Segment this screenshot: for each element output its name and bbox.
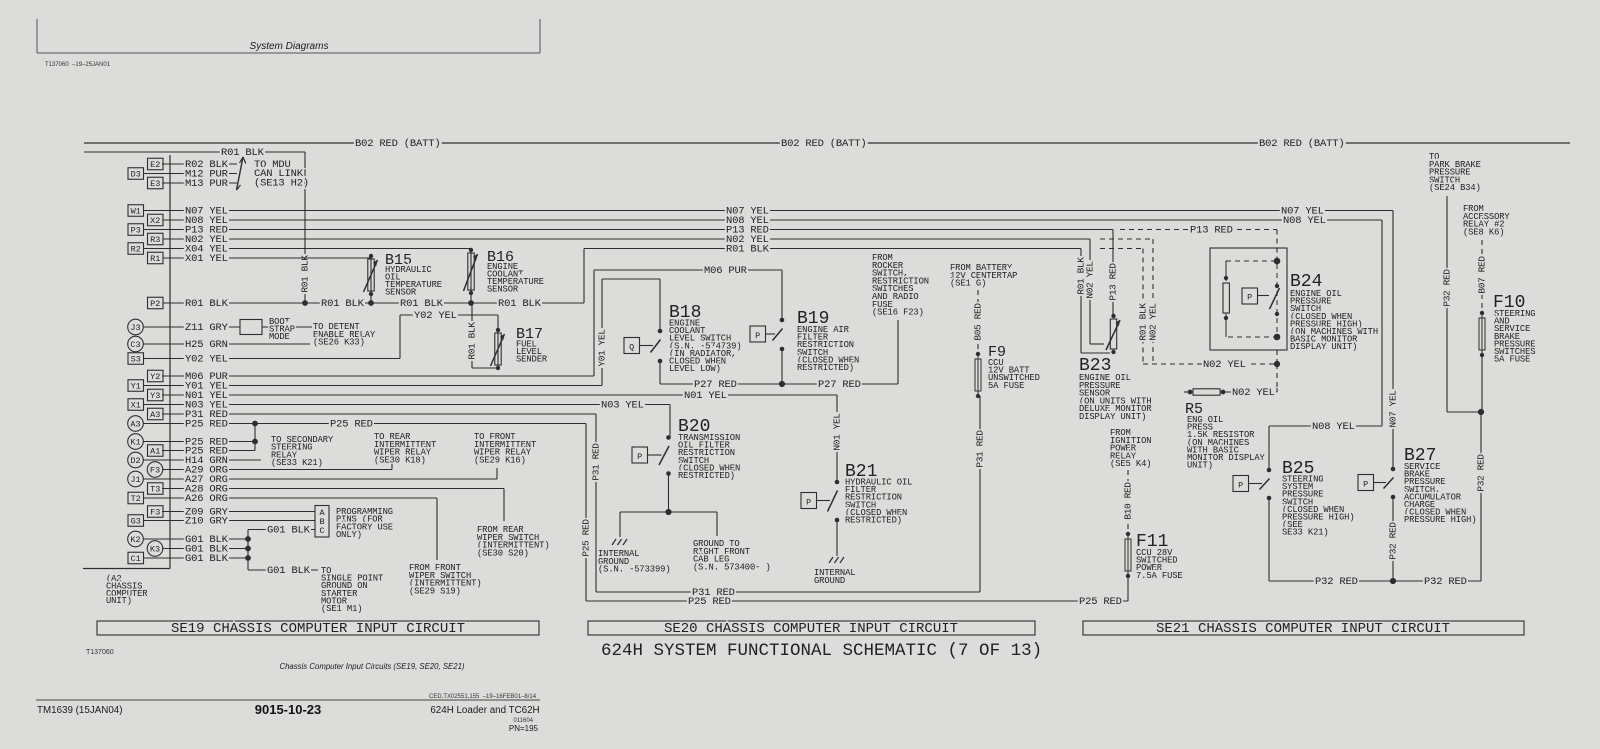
svg-text:SE19 CHASSIS COMPUTER INPUT CI: SE19 CHASSIS COMPUTER INPUT CIRCUIT <box>171 621 465 637</box>
svg-text:Chassis Computer Input Circuit: Chassis Computer Input Circuits (SE19, S… <box>279 662 464 671</box>
svg-text:B07 RED: B07 RED <box>1477 256 1488 294</box>
wire G01 BLK pin K3 <box>162 544 251 556</box>
note internal ground SN -573399 <box>598 549 671 575</box>
A2 chassis computer unit boundary <box>83 155 170 569</box>
svg-text:7.5A FUSE: 7.5A FUSE <box>1136 571 1183 581</box>
connector pin Y3 <box>148 389 184 401</box>
svg-text:DISPLAY UNIT): DISPLAY UNIT) <box>1290 342 1357 352</box>
svg-text:D2: D2 <box>130 456 140 466</box>
SE19 chassis computer input circuit box <box>97 621 539 637</box>
svg-text:LEVEL LOW): LEVEL LOW) <box>669 364 721 374</box>
svg-text:(SE1 M1): (SE1 M1) <box>321 604 362 614</box>
svg-text:R01 BLK: R01 BLK <box>1138 303 1149 341</box>
svg-text:System Diagrams: System Diagrams <box>250 41 329 52</box>
svg-text:Y02 YEL: Y02 YEL <box>414 310 457 322</box>
switch B27 service brake pressure <box>1358 467 1399 581</box>
sensor B15 hydraulic oil temperature <box>364 254 378 303</box>
note to rear intermittent wiper relay <box>374 432 436 465</box>
connector pin J1 <box>128 471 183 487</box>
note from battery 12V centertap <box>950 263 1017 289</box>
connector pin D2 <box>128 452 183 468</box>
connector pin S3 <box>128 353 183 365</box>
fuse F10 <box>1479 311 1485 412</box>
footer 01604 <box>513 718 533 724</box>
svg-text:B02 RED (BATT): B02 RED (BATT) <box>1259 138 1344 150</box>
wire N03 YEL <box>162 400 670 438</box>
wire H25 GRN <box>162 339 310 351</box>
programming pins connector <box>315 506 329 538</box>
svg-text:E2: E2 <box>150 160 160 170</box>
wire P25 RED pin A1 <box>162 424 255 458</box>
wire P25 RED <box>162 419 1128 609</box>
svg-text:(SE5 K4): (SE5 K4) <box>1110 459 1151 469</box>
svg-text:B05 RED: B05 RED <box>973 303 984 341</box>
footer 9015-10-23 <box>255 702 322 717</box>
wire P32 RED bottom <box>1269 412 1487 588</box>
svg-text:CED,TX02551,155 –19–16FEB01–8: CED,TX02551,155 –19–16FEB01–8/14 <box>429 694 537 700</box>
wire N02 YEL <box>183 234 1159 364</box>
connector pin E2 <box>148 158 184 170</box>
svg-text:(SE13 H2): (SE13 H2) <box>254 177 309 189</box>
connector pin Y1 <box>128 380 183 392</box>
label B16 <box>487 249 544 295</box>
connector pin C3 <box>128 336 183 352</box>
svg-text:P13 RED: P13 RED <box>1108 263 1119 301</box>
svg-text:P2: P2 <box>150 299 160 309</box>
wire R02 BLK to MDU <box>162 159 237 171</box>
svg-text:J3: J3 <box>130 323 140 333</box>
svg-text:(S.N. 573400- ): (S.N. 573400- ) <box>693 562 771 572</box>
svg-text:M06 PUR: M06 PUR <box>704 265 748 277</box>
switch B19 engine air filter restriction <box>750 318 784 352</box>
svg-text:N02 YEL: N02 YEL <box>1148 303 1159 341</box>
svg-text:P13 RED: P13 RED <box>1190 225 1233 237</box>
wire B02 RED (BATT) bus <box>84 138 1570 150</box>
svg-text:N08 YEL: N08 YEL <box>1312 421 1355 433</box>
wire B05 RED <box>973 290 984 354</box>
svg-text:P31 RED: P31 RED <box>591 443 602 481</box>
svg-text:G01 BLK: G01 BLK <box>267 565 311 577</box>
CAN twisted cable symbol <box>237 157 246 190</box>
svg-text:PRESSURE HIGH): PRESSURE HIGH) <box>1404 515 1477 525</box>
label T137060 -19-25JAN01 <box>45 62 111 68</box>
wire R01 BLK top <box>84 147 311 303</box>
SE21 chassis computer input circuit box <box>1083 621 1524 637</box>
svg-text:T2: T2 <box>131 494 141 504</box>
svg-text:5A FUSE: 5A FUSE <box>988 381 1024 391</box>
label B21 <box>845 462 912 526</box>
note to park brake pressure switch <box>1429 152 1481 193</box>
wire B07 RED <box>1477 240 1488 313</box>
footer CED line <box>429 694 537 700</box>
svg-text:P: P <box>1363 480 1368 490</box>
svg-text:T137060 –19–25JAN01: T137060 –19–25JAN01 <box>45 62 111 68</box>
note from rear wiper switch <box>477 525 550 558</box>
note programming pins <box>336 507 393 540</box>
wire A27 ORG <box>162 468 497 486</box>
wire M12 PUR to MDU <box>144 169 237 181</box>
svg-text:K3: K3 <box>150 545 160 555</box>
wire G01 BLK pin K2 <box>162 534 251 546</box>
sensor B16 engine coolant temperature <box>464 248 478 303</box>
svg-text:(SE29 K16): (SE29 K16) <box>474 455 526 465</box>
svg-text:N07 YEL: N07 YEL <box>1388 390 1399 428</box>
wire B10 RED <box>1123 470 1134 534</box>
svg-text:UNIT): UNIT) <box>106 596 132 606</box>
note internal ground B21 <box>814 568 855 586</box>
label R5 <box>1185 401 1266 471</box>
svg-text:P3: P3 <box>131 226 141 236</box>
connector pin T3 <box>148 483 184 495</box>
svg-text:N03 YEL: N03 YEL <box>601 400 644 412</box>
connector pin F3 <box>148 506 184 518</box>
svg-text:F3: F3 <box>150 508 160 518</box>
wire N08 YEL <box>183 215 1382 470</box>
svg-text:Y3: Y3 <box>150 391 160 401</box>
connector pin K3 <box>147 541 183 557</box>
sensor B17 fuel level sender <box>467 303 505 370</box>
svg-text:R1: R1 <box>150 254 160 264</box>
label B23 <box>1079 356 1152 422</box>
SE20 chassis computer input circuit box <box>588 621 1035 637</box>
connector pin K1 <box>128 434 183 450</box>
svg-text:TM1639 (15JAN04): TM1639 (15JAN04) <box>37 705 123 716</box>
svg-text:P25 RED: P25 RED <box>1079 596 1122 608</box>
svg-text:(SE24 B34): (SE24 B34) <box>1429 183 1481 193</box>
note to single point ground on starter motor <box>321 566 383 614</box>
connector pin G3 <box>128 515 183 527</box>
svg-text:G01 BLK: G01 BLK <box>185 553 229 565</box>
note to secondary steering relay <box>271 435 334 468</box>
svg-text:MODE: MODE <box>269 332 290 342</box>
svg-text:P27 RED: P27 RED <box>818 379 861 391</box>
svg-text:SENSOR: SENSOR <box>385 288 417 298</box>
svg-text:X01 YEL: X01 YEL <box>185 253 228 265</box>
svg-text:SE21 CHASSIS COMPUTER INPUT CI: SE21 CHASSIS COMPUTER INPUT CIRCUIT <box>1156 621 1450 637</box>
label B17 <box>516 326 548 365</box>
svg-text:A26 ORG: A26 ORG <box>185 493 228 505</box>
svg-text:B10 RED: B10 RED <box>1123 482 1134 520</box>
svg-text:P32 RED: P32 RED <box>1442 269 1453 307</box>
svg-text:N02 YEL: N02 YEL <box>1232 387 1275 399</box>
svg-text:P: P <box>1238 481 1243 491</box>
label B18 <box>669 303 742 374</box>
wire R01 BLK row <box>584 244 1149 365</box>
svg-text:P32 RED: P32 RED <box>1315 576 1358 588</box>
label B20 <box>678 417 740 481</box>
label B24 <box>1290 272 1378 352</box>
connector pin K2 <box>128 531 183 547</box>
wire A29 ORG <box>162 462 392 477</box>
svg-text:R01 BLK: R01 BLK <box>185 298 229 310</box>
wire R01 BLK ground bus <box>183 298 584 310</box>
connector pin X1 <box>128 399 183 411</box>
svg-text:G3: G3 <box>131 517 141 527</box>
svg-text:Z11 GRY: Z11 GRY <box>185 322 229 334</box>
svg-text:G01 BLK: G01 BLK <box>267 525 311 537</box>
switch B25 steering system pressure <box>1233 468 1271 581</box>
switch B20 transmission oil filter restriction <box>632 435 672 515</box>
svg-text:M13 PUR: M13 PUR <box>185 178 229 190</box>
svg-text:P25 RED: P25 RED <box>688 596 731 608</box>
svg-text:A3: A3 <box>150 410 160 420</box>
svg-text:N08 YEL: N08 YEL <box>1283 215 1326 227</box>
wire G01 BLK junction <box>248 525 318 578</box>
connector pin R3 <box>148 233 184 245</box>
wire Z10 GRY <box>162 516 315 528</box>
wire N01 YEL <box>162 390 843 482</box>
svg-text:RESTRICTED): RESTRICTED) <box>845 516 902 526</box>
svg-text:R2: R2 <box>131 245 141 255</box>
svg-text:P27 RED: P27 RED <box>694 379 737 391</box>
connector pin P3 <box>128 224 183 236</box>
svg-text:W1: W1 <box>131 207 141 217</box>
wire P13 RED <box>183 225 1277 317</box>
svg-text:GROUND: GROUND <box>814 576 845 586</box>
fuse F9 <box>975 352 981 398</box>
label F9 <box>988 344 1040 391</box>
svg-text:(SE26 K33): (SE26 K33) <box>313 338 365 348</box>
svg-text:Z10 GRY: Z10 GRY <box>185 516 229 528</box>
svg-text:SE33 K21): SE33 K21) <box>1282 528 1329 538</box>
wire X04 YEL <box>183 244 471 256</box>
svg-text:UNIT): UNIT) <box>1187 461 1213 471</box>
svg-text:624H Loader and TC62H: 624H Loader and TC62H <box>430 705 539 716</box>
note boot strap mode <box>269 317 295 342</box>
note from rocker switch <box>872 253 929 318</box>
svg-text:9015-10-23: 9015-10-23 <box>255 702 322 717</box>
wire M13 PUR to MDU <box>162 178 237 190</box>
label F10 <box>1493 293 1535 365</box>
svg-text:R01 BLK: R01 BLK <box>1076 257 1087 295</box>
note to front intermittent wiper relay <box>474 432 536 465</box>
label B19 <box>797 309 859 373</box>
connector pin J3 <box>128 319 183 335</box>
connector pin W1 <box>128 205 183 217</box>
svg-text:P32 RED: P32 RED <box>1388 522 1399 560</box>
svg-text:Y2: Y2 <box>150 372 160 382</box>
wire A28 ORG <box>162 484 504 522</box>
svg-text:P: P <box>1247 293 1252 303</box>
wire X01 YEL <box>183 253 371 265</box>
svg-text:X2: X2 <box>150 216 160 226</box>
svg-text:RESTRICTED): RESTRICTED) <box>678 471 735 481</box>
fuse F11 <box>1125 532 1131 578</box>
svg-text:(SE8 K6): (SE8 K6) <box>1463 227 1504 237</box>
svg-text:A3: A3 <box>130 420 140 430</box>
svg-text:T3: T3 <box>150 485 160 495</box>
main title 624H system functional schematic <box>601 641 1042 661</box>
svg-text:(S.N. -573399): (S.N. -573399) <box>598 565 671 575</box>
svg-text:X1: X1 <box>131 401 141 411</box>
svg-text:P25 RED: P25 RED <box>330 419 373 431</box>
connector pin C1 <box>128 552 183 564</box>
svg-text:R3: R3 <box>150 235 160 245</box>
svg-text:F3: F3 <box>150 466 160 476</box>
svg-text:624H SYSTEM FUNCTIONAL SCHEMAT: 624H SYSTEM FUNCTIONAL SCHEMATIC (7 OF 1… <box>601 641 1042 661</box>
svg-text:SENDER: SENDER <box>516 355 548 365</box>
wire A26 ORG <box>162 493 437 560</box>
boot strap mode jumper <box>240 320 262 335</box>
connector pin R2 <box>128 243 183 255</box>
svg-text:PN=195: PN=195 <box>509 724 539 733</box>
wire Y01 YEL <box>162 279 660 393</box>
svg-text:T137060: T137060 <box>86 649 114 656</box>
connector pin A3 <box>148 408 184 420</box>
wire N02 YEL dashed to B24 <box>1143 359 1280 371</box>
title System Diagrams <box>250 41 329 52</box>
footer 624H Loader and TC62H <box>430 705 539 716</box>
svg-text:DISPLAY UNIT): DISPLAY UNIT) <box>1079 412 1146 422</box>
svg-text:5A FUSE: 5A FUSE <box>1494 355 1530 365</box>
svg-text:(SE30 S20): (SE30 S20) <box>477 548 529 558</box>
note from front wiper switch <box>409 563 482 596</box>
svg-text:(SE33 K21): (SE33 K21) <box>271 458 323 468</box>
svg-text:E3: E3 <box>150 179 160 189</box>
svg-text:(SE29 S19): (SE29 S19) <box>409 586 461 596</box>
note from ignition power relay <box>1110 428 1151 469</box>
svg-text:ONLY): ONLY) <box>336 530 362 540</box>
svg-text:SENSOR: SENSOR <box>487 285 519 295</box>
svg-text:C1: C1 <box>131 554 141 564</box>
svg-text:N01 YEL: N01 YEL <box>832 413 843 451</box>
svg-text:N01 YEL: N01 YEL <box>684 390 727 402</box>
label B27 <box>1404 446 1477 525</box>
connector pin F3 <box>147 462 183 478</box>
connector pin A3 <box>128 416 183 432</box>
connector pin R1 <box>148 252 184 264</box>
svg-text:R01 BLK: R01 BLK <box>498 298 542 310</box>
label B25 <box>1282 459 1355 538</box>
svg-text:(SE16 F23): (SE16 F23) <box>872 308 924 318</box>
wire P25 RED pin K1 <box>162 437 258 449</box>
wire H14 GRN <box>162 455 261 467</box>
wire P27 RED <box>660 320 898 391</box>
note to MDU CAN link <box>254 159 309 189</box>
svg-text:S3: S3 <box>131 355 141 365</box>
connector pin A1 <box>148 445 184 457</box>
svg-text:K2: K2 <box>130 535 140 545</box>
svg-text:P32 RED: P32 RED <box>1476 454 1487 492</box>
label F11 <box>1136 532 1183 581</box>
svg-text:Y02 YEL: Y02 YEL <box>185 354 228 366</box>
wire Z11 GRY <box>162 322 312 334</box>
switch B18 engine coolant level <box>624 329 662 384</box>
note to detent enable relay <box>313 322 376 348</box>
connector pin X2 <box>148 214 184 226</box>
sensor B23 engine oil pressure <box>1106 314 1120 354</box>
svg-text:R01 BLK: R01 BLK <box>726 244 770 256</box>
svg-text:R01 BLK: R01 BLK <box>400 298 444 310</box>
note ground to right front cab leg <box>693 539 771 572</box>
svg-text:P: P <box>637 452 642 462</box>
footer PN=195 <box>509 724 539 733</box>
wire G01 BLK pin C1 <box>162 553 251 565</box>
connector pin D3 <box>128 168 183 180</box>
footer TM1639 <box>37 705 123 716</box>
switch B21 hydraulic oil filter restriction <box>801 480 839 556</box>
svg-text:(SE30 K18): (SE30 K18) <box>374 455 426 465</box>
svg-text:K1: K1 <box>130 438 140 448</box>
svg-text:Y01 YEL: Y01 YEL <box>597 329 608 367</box>
resistor R5 <box>1184 387 1277 399</box>
svg-text:P: P <box>806 498 811 508</box>
svg-text:(SE1 G): (SE1 G) <box>950 279 986 289</box>
wire B20 to cab leg ground <box>669 512 718 536</box>
wire Z09 GRY <box>162 507 315 519</box>
svg-text:SE20 CHASSIS COMPUTER INPUT CI: SE20 CHASSIS COMPUTER INPUT CIRCUIT <box>664 621 958 637</box>
footer rule <box>36 699 540 701</box>
svg-text:B02 RED (BATT): B02 RED (BATT) <box>781 138 866 150</box>
svg-text:P: P <box>755 331 760 341</box>
connector pin E3 <box>148 177 184 189</box>
switch B24 engine oil pressure <box>1210 248 1287 388</box>
label T137060 bottom <box>86 649 114 656</box>
wire Y02 YEL <box>162 310 498 366</box>
svg-text:J1: J1 <box>130 475 140 485</box>
svg-text:B02 RED (BATT): B02 RED (BATT) <box>355 138 440 150</box>
label B15 <box>385 252 442 298</box>
svg-text:N02 YEL: N02 YEL <box>1203 359 1246 371</box>
note from accessory relay 2 <box>1463 204 1510 237</box>
label A2 chassis computer unit <box>106 574 148 606</box>
svg-text:H25 GRN: H25 GRN <box>185 339 228 351</box>
ground internal B20 <box>612 539 627 545</box>
caption chassis computer input circuits <box>279 662 464 671</box>
drawing header bracket <box>37 19 540 53</box>
connector pin P2 <box>148 297 184 309</box>
svg-text:P25 RED: P25 RED <box>185 419 228 431</box>
svg-text:C3: C3 <box>130 340 140 350</box>
svg-text:A1: A1 <box>150 447 160 457</box>
svg-text:R01 BLK: R01 BLK <box>467 322 478 360</box>
svg-text:P32 RED: P32 RED <box>1424 576 1467 588</box>
svg-text:RESTRICTED): RESTRICTED) <box>797 363 854 373</box>
svg-text:P25 RED: P25 RED <box>581 519 592 557</box>
svg-text:Y1: Y1 <box>131 382 141 392</box>
ground internal B21 <box>829 557 844 563</box>
wire P32 RED left <box>1442 196 1485 415</box>
svg-text:P31 RED: P31 RED <box>975 430 986 468</box>
svg-text:R01 BLK: R01 BLK <box>300 255 311 293</box>
svg-text:Q: Q <box>629 343 634 353</box>
svg-text:R01 BLK: R01 BLK <box>321 298 365 310</box>
wire B20 to internal ground <box>620 512 669 537</box>
svg-text:C: C <box>319 526 324 536</box>
wire N07 YEL <box>183 206 1399 470</box>
connector pin T2 <box>128 492 183 504</box>
wire M06 PUR <box>162 265 782 383</box>
wire P31 RED <box>162 396 986 599</box>
connector pin Y2 <box>148 370 184 382</box>
svg-text:D3: D3 <box>131 170 141 180</box>
